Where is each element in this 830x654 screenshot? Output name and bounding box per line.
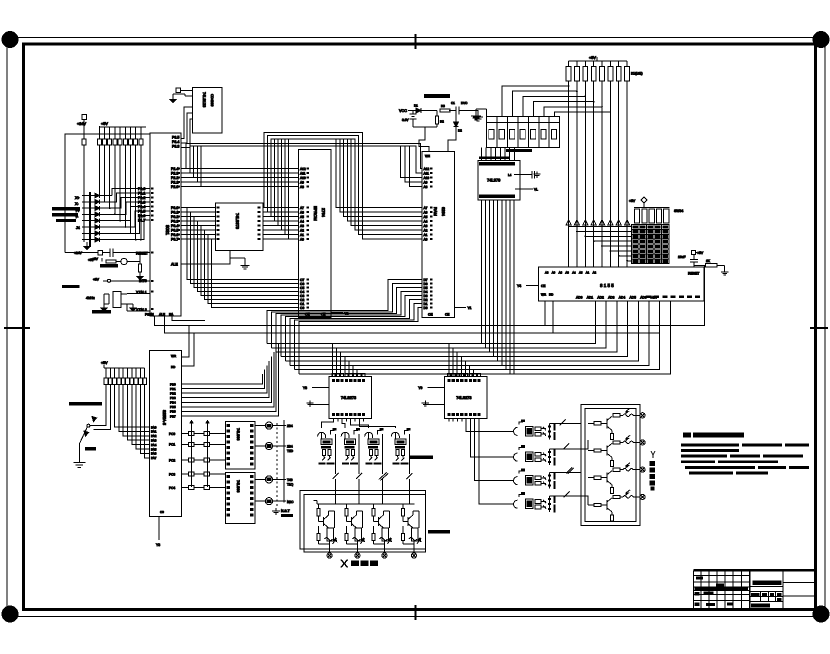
svg-text:PB0: PB0 [170,382,176,386]
U1 pins P1.0-P1.7 labels [138,187,145,223]
svg-text:RESET: RESET [136,252,149,256]
switch wires [90,385,110,430]
label 4MHz [86,296,95,300]
DIP switch SW34 bodies [634,208,670,224]
svg-text:P2.0: P2.0 [171,185,178,189]
opto isolator Y3 [510,469,556,490]
svg-text:A4: A4 [424,220,428,224]
inverter out circles [255,420,286,505]
buffer U9 74LS06 [225,421,255,469]
svg-text:P2.4: P2.4 [171,167,178,171]
U9 pin smudges [227,424,254,466]
svg-text:8031: 8031 [165,225,170,236]
U1 pin XTAL1 label [136,291,147,295]
svg-text:Y9: Y9 [418,386,422,390]
svg-text:P0.3: P0.3 [171,220,178,224]
X driver box B [304,494,426,552]
svg-text:A12: A12 [300,167,306,171]
svg-text:10uF: 10uF [678,255,686,259]
SW34 legend table smudge [632,225,670,264]
control line ALE long [165,316,660,333]
svg-text:Y1: Y1 [468,306,472,310]
svg-text:PB4: PB4 [170,401,176,405]
Y drive transistor Q8 cell [588,490,645,521]
opto isolator X3 [365,428,384,474]
+24V +5V small label [74,251,95,262]
wire U2 pin A [181,107,193,139]
corner dot top-right [813,32,829,48]
reset resistor R5 [102,258,140,265]
svg-text:AD2: AD2 [597,296,604,300]
svg-text:A10: A10 [424,176,430,180]
svg-text:A9: A9 [424,181,428,185]
wires X optos to block [336,481,410,504]
svg-text:6264: 6264 [441,207,446,217]
svg-text:Y4: Y4 [517,284,521,288]
Y driver box [581,405,640,526]
wire bank tops [100,126,147,139]
U8 data rows staircase to band [181,344,278,416]
svg-text:A5: A5 [579,271,583,275]
svg-text:74LS273: 74LS273 [456,396,471,400]
svg-text:A3: A3 [565,271,569,275]
U1 pin XTAL2 label [136,308,147,312]
svg-text:Y8: Y8 [303,386,307,390]
MCU U1 8031 [150,133,181,316]
label SW34 [674,209,683,213]
RAM CE wire Y1 [455,306,472,310]
svg-text:A7: A7 [300,206,304,210]
label RESET right [688,272,699,276]
labels X+ X- Y+ Y- [75,196,80,230]
reset pull resistor R6 [137,253,143,280]
svg-text:A6: A6 [559,271,563,275]
svg-text:ALE: ALE [171,263,178,267]
svg-text:+5V: +5V [589,56,596,60]
latch U12 74LS273 Y [418,374,487,422]
svg-text:P0.2: P0.2 [171,215,178,219]
dashed line [276,423,278,508]
wire U2 pin C [181,119,193,148]
svg-text:+5V: +5V [697,251,704,255]
svg-text:A1: A1 [300,233,304,237]
U1 pins P2 labels [171,167,178,189]
capacitor C6 [451,101,470,115]
driver U6 74LS07 [478,161,520,201]
svg-text:PSEN: PSEN [145,313,154,317]
RAM U5 6264 [422,152,455,318]
svg-text:PB1: PB1 [170,387,176,391]
wires array to SW34 grid [568,226,632,262]
svg-text:RESET: RESET [688,272,699,276]
reset resistor R4 1K [694,259,728,275]
label 启动开关 smudge [62,285,80,288]
U6 bottom pin labels smudge [479,195,515,199]
svg-text:PC1: PC1 [169,443,175,447]
wires U12 to Y optos [466,422,510,505]
U7 AD labels [576,296,657,300]
svg-text:P2.2: P2.2 [171,176,178,180]
U6 outputs down to band [481,200,514,374]
svg-text:A6: A6 [424,211,428,215]
svg-text:A0: A0 [300,238,304,242]
svg-text:A1: A1 [424,233,428,237]
svg-text:8255A-5: 8255A-5 [162,410,167,426]
svg-text:A5: A5 [424,215,428,219]
svg-text:T40: T40 [287,478,293,482]
opto isolator Y1 [510,419,556,440]
+5V label bank2 [101,361,108,368]
reset switch box S1 [65,251,108,256]
svg-text:R3: R3 [441,104,445,108]
svg-text:ALE: ALE [159,313,165,317]
svg-text:PA0: PA0 [151,425,157,429]
svg-text:PC4: PC4 [169,486,175,490]
Y drive transistor Q7 cell [588,463,645,494]
Y drive transistor Q6 cell [588,435,645,466]
svg-text:A0: A0 [424,238,428,242]
buffer U10 74LS06 [225,472,255,523]
svg-text:2B4: 2B4 [287,424,293,428]
svg-text:+5V: +5V [101,361,108,365]
wires U11 to X optos [322,422,396,429]
svg-text:N2C: N2C [287,500,294,504]
U1 pin INT0 label [139,279,147,283]
U3 pin G gnd [230,251,249,269]
svg-text:EPROM: EPROM [313,206,318,221]
connector triangles row [566,220,630,225]
U4 pins A0-A7 labels [300,206,304,242]
svg-text:2764: 2764 [321,208,326,218]
NST text gnd [272,508,293,517]
svg-text:D0: D0 [424,306,428,310]
U8 top pins [171,354,177,369]
label 复位电路 smudge [100,264,118,268]
EPROM CE wire Y0 [331,312,349,316]
U6 pin VL [515,187,538,191]
opto isolator Y4 [510,492,556,513]
title block texts smudge [695,577,782,608]
notes title K.2.7 smudge [683,433,744,438]
data bus CPU down to EPROM [187,208,299,308]
svg-text:74LS06: 74LS06 [236,480,240,492]
svg-text:A9: A9 [300,181,304,185]
svg-text:WR: WR [541,293,547,297]
svg-text:PB6: PB6 [170,410,176,414]
svg-text:4MHz: 4MHz [86,296,95,300]
opto isolator X1 [318,428,337,474]
+24V label left [77,122,86,126]
svg-text:+5V: +5V [101,122,108,126]
opto isolator X4 [391,428,410,474]
Y drive transistor Q5 cell [588,408,645,439]
svg-text:AD1: AD1 [587,296,594,300]
U7 top pin labels [545,271,596,275]
svg-text:AD6: AD6 [640,296,647,300]
switch slashes X [333,473,413,490]
IO U7 8155 [539,267,705,301]
svg-text:WR: WR [171,354,177,358]
label 功率放大 smudge [428,530,450,533]
svg-text:PB5: PB5 [170,405,176,409]
corner dot bottom-right [813,606,829,622]
opto isolator X2 [341,428,360,474]
U4 pins D labels [300,278,304,310]
INT0 switch S2 [93,278,150,283]
svg-text:74LS273: 74LS273 [341,396,356,400]
tick bottom middle [415,605,417,620]
ground battery circuit [470,111,483,122]
svg-text:DVC: DVC [461,101,468,105]
svg-text:A8: A8 [424,185,428,189]
U5 pins A0-A7 labels [424,206,428,242]
svg-text:T1D: T1D [287,449,294,453]
svg-text:CE: CE [445,313,449,317]
U10 pin smudges [227,475,254,517]
+5V label top right [589,56,596,60]
title block grid [694,570,815,608]
U6 pin to gnd cap [508,171,541,179]
wire left node to CPU top [65,134,150,253]
svg-text:P3.3: P3.3 [172,145,179,149]
X driver box A [300,491,426,549]
ground displays [471,109,487,120]
wire bank downs [99,145,142,241]
svg-text:P3.4: P3.4 [172,140,179,144]
control line EA [172,316,205,321]
8255 control taps [181,326,194,366]
svg-text:PA7: PA7 [151,456,157,460]
tick left middle [4,327,30,329]
U7 WR RD labels [541,293,554,334]
reset capacitor C4 [108,249,150,258]
wire +24V stub [82,115,87,140]
svg-text:PA3: PA3 [151,439,157,443]
pull-up resistor bank RN1 [82,139,143,145]
wire diode rows to P1 staircase [112,189,150,240]
svg-text:3.6V: 3.6V [402,118,409,122]
svg-text:L4: L4 [508,173,512,177]
ground switch [73,447,96,467]
reset wire down [704,265,706,267]
U8 PA labels [151,425,157,460]
svg-text:+5V: +5V [629,199,636,203]
svg-text:A4: A4 [572,271,576,275]
svg-text:PA4: PA4 [151,443,157,447]
tick top middle [415,34,417,49]
svg-text:T1Q: T1Q [287,483,294,487]
bank RN2 to PA pins [115,385,150,458]
svg-text:P3.5: P3.5 [172,136,179,140]
bus P2 CPU to EPROM A8-A12 [181,169,299,187]
svg-text:PA1: PA1 [151,430,157,434]
U5 pins OE CE labels [425,154,449,317]
svg-text:A11: A11 [300,172,306,176]
PIO U8 8255 [150,350,182,516]
ground at U2 [170,94,193,102]
diode D2 [454,111,463,133]
svg-text:P0.1: P0.1 [171,211,178,215]
svg-text:P2.1: P2.1 [171,181,178,185]
notes paragraph smudge [681,444,809,475]
U1 pins P3 labels [172,136,179,149]
bus P0 CPU to U3 [181,206,261,240]
svg-text:A3: A3 [300,224,304,228]
svg-text:A2: A2 [300,229,304,233]
svg-text:A7: A7 [424,206,428,210]
one-shot U2 74LS123 [193,88,223,134]
svg-text:A10: A10 [300,176,306,180]
svg-text:O0: O0 [300,306,304,310]
svg-text:1K: 1K [706,259,711,263]
svg-text:A11: A11 [424,172,430,176]
control WR line [0,0,1,1]
ground below J1 [84,145,90,249]
svg-text:PB7: PB7 [170,414,176,418]
input diodes D1-D8 [82,193,112,242]
svg-text:AD0: AD0 [576,296,583,300]
corner dot bottom-left [2,606,18,622]
svg-text:P0.0: P0.0 [171,206,178,210]
label 时钟电路 smudge [92,310,111,314]
svg-text:74LS123: 74LS123 [202,92,206,107]
svg-text:AD3: AD3 [608,296,615,300]
X drive transistor Q3 cell [372,504,392,558]
X drive transistor Q4 cell [401,504,421,558]
U5 pins A8-A12 labels [424,167,430,189]
wire U2 pin B [181,113,193,143]
U2 input square pad [176,88,193,93]
corner dot top-left [2,32,18,48]
7-seg display DS1-DS7 [487,117,560,148]
+5V reset label [92,257,99,261]
label K1 10k [631,72,643,76]
svg-text:8 1 5 5: 8 1 5 5 [600,283,614,288]
address bus A8-A12 over top to RAM [186,144,422,187]
svg-text:PC2: PC2 [169,458,175,462]
xtal cap2 gnd [127,304,136,311]
U8 PB labels [170,382,176,418]
data band drops to latches [333,344,478,377]
data band to 8155 AD bus [267,301,670,374]
svg-text:A8: A8 [545,271,549,275]
svg-text:P0.5: P0.5 [171,229,178,233]
U6 top pin labels smudge [479,157,515,166]
svg-text:WE: WE [425,154,430,158]
arrow marks [84,417,97,437]
X drive transistor Q2 cell [345,504,365,558]
svg-text:A6: A6 [300,211,304,215]
svg-text:R2: R2 [440,120,444,124]
limit switch connector J1 bar [89,192,91,247]
svg-text:C1: C1 [451,101,455,105]
svg-text:RAM: RAM [433,207,438,216]
svg-text:A4: A4 [300,220,304,224]
svg-text:P0.4: P0.4 [171,224,178,228]
svg-text:PA5: PA5 [151,447,157,451]
switch slashes Y [560,419,574,497]
svg-text:OE: OE [428,313,433,317]
display bottom pins to driver [482,148,533,161]
svg-text:P0.7: P0.7 [171,238,178,242]
svg-text:74L379: 74L379 [487,178,501,183]
svg-text:X-: X- [75,202,79,206]
svg-text:PC0: PC0 [169,432,175,436]
svg-text:A3: A3 [424,224,428,228]
wire ALE to U3 G [181,251,230,265]
svg-text:RD: RD [171,365,176,369]
crystal Y1 [109,292,150,312]
latch U3 74LS373 [216,203,264,251]
label 限位开关输入 smudge [52,207,80,222]
svg-text:Y0: Y0 [345,312,349,316]
wires Y optos to block [550,423,589,505]
svg-text:P2.3: P2.3 [171,172,178,176]
U1 pin RESET label [136,252,149,256]
svg-text:VL: VL [534,187,538,191]
label Y 步进电动机 [650,451,656,491]
svg-text:RD: RD [549,293,554,297]
label 光电隔离电路 smudge [409,456,433,459]
svg-text:K1(10k): K1(10k) [631,72,643,76]
+5V label left bank [101,122,108,126]
net labels 2B4 T1D [287,424,294,504]
svg-text:74LS06: 74LS06 [236,428,240,440]
svg-text:A1: A1 [586,271,590,275]
svg-text:AD5: AD5 [630,296,637,300]
battery BT1 3.6V [402,111,417,128]
svg-text:A9: A9 [552,271,556,275]
pull-up bank RN2 [104,368,147,385]
svg-text:AD4: AD4 [619,296,626,300]
+5V SW34 [629,197,647,208]
RC networks rows [181,421,225,490]
X driver rail [314,501,415,505]
svg-text:+5V: +5V [93,278,100,282]
label 电源监测电路 smudge [424,94,450,98]
data bus EPROM-RAM and down-link [267,280,422,374]
svg-text:A8: A8 [300,185,304,189]
opto isolator Y2 [510,445,556,466]
VCC label [399,109,407,113]
svg-text:A2: A2 [593,271,597,275]
svg-text:P0.6: P0.6 [171,233,178,237]
U1 pins PSEN ALE EA labels [145,313,174,317]
svg-text:J4: J4 [76,226,80,230]
resistor R3 horizontal [440,104,456,112]
svg-text:A5: A5 [300,215,304,219]
svg-text:N.S.T: N.S.T [281,509,290,513]
svg-text:74LS373: 74LS373 [235,213,240,230]
X drive transistor Q1 cell [317,504,337,558]
resistor R2 vertical [413,111,444,128]
U5 pins D labels [424,278,428,310]
svg-text:+5V: +5V [92,257,99,261]
svg-text:PA6: PA6 [151,452,157,456]
svg-text:PC3: PC3 [169,473,175,477]
svg-text:SW34: SW34 [674,209,683,213]
xtal load caps C2 C3 [101,294,109,311]
U1 pin ALE label [171,263,178,267]
svg-text:D1: D1 [414,104,418,108]
svg-text:X+: X+ [75,196,80,200]
svg-text:Y3: Y3 [156,543,160,547]
svg-text:CS: CS [160,510,164,514]
U4 pins A8-A12 labels [300,167,306,189]
U8 CS wire Y3 [156,510,164,547]
U8 PC labels [169,432,175,490]
U7 CE label Y4 [517,284,545,288]
